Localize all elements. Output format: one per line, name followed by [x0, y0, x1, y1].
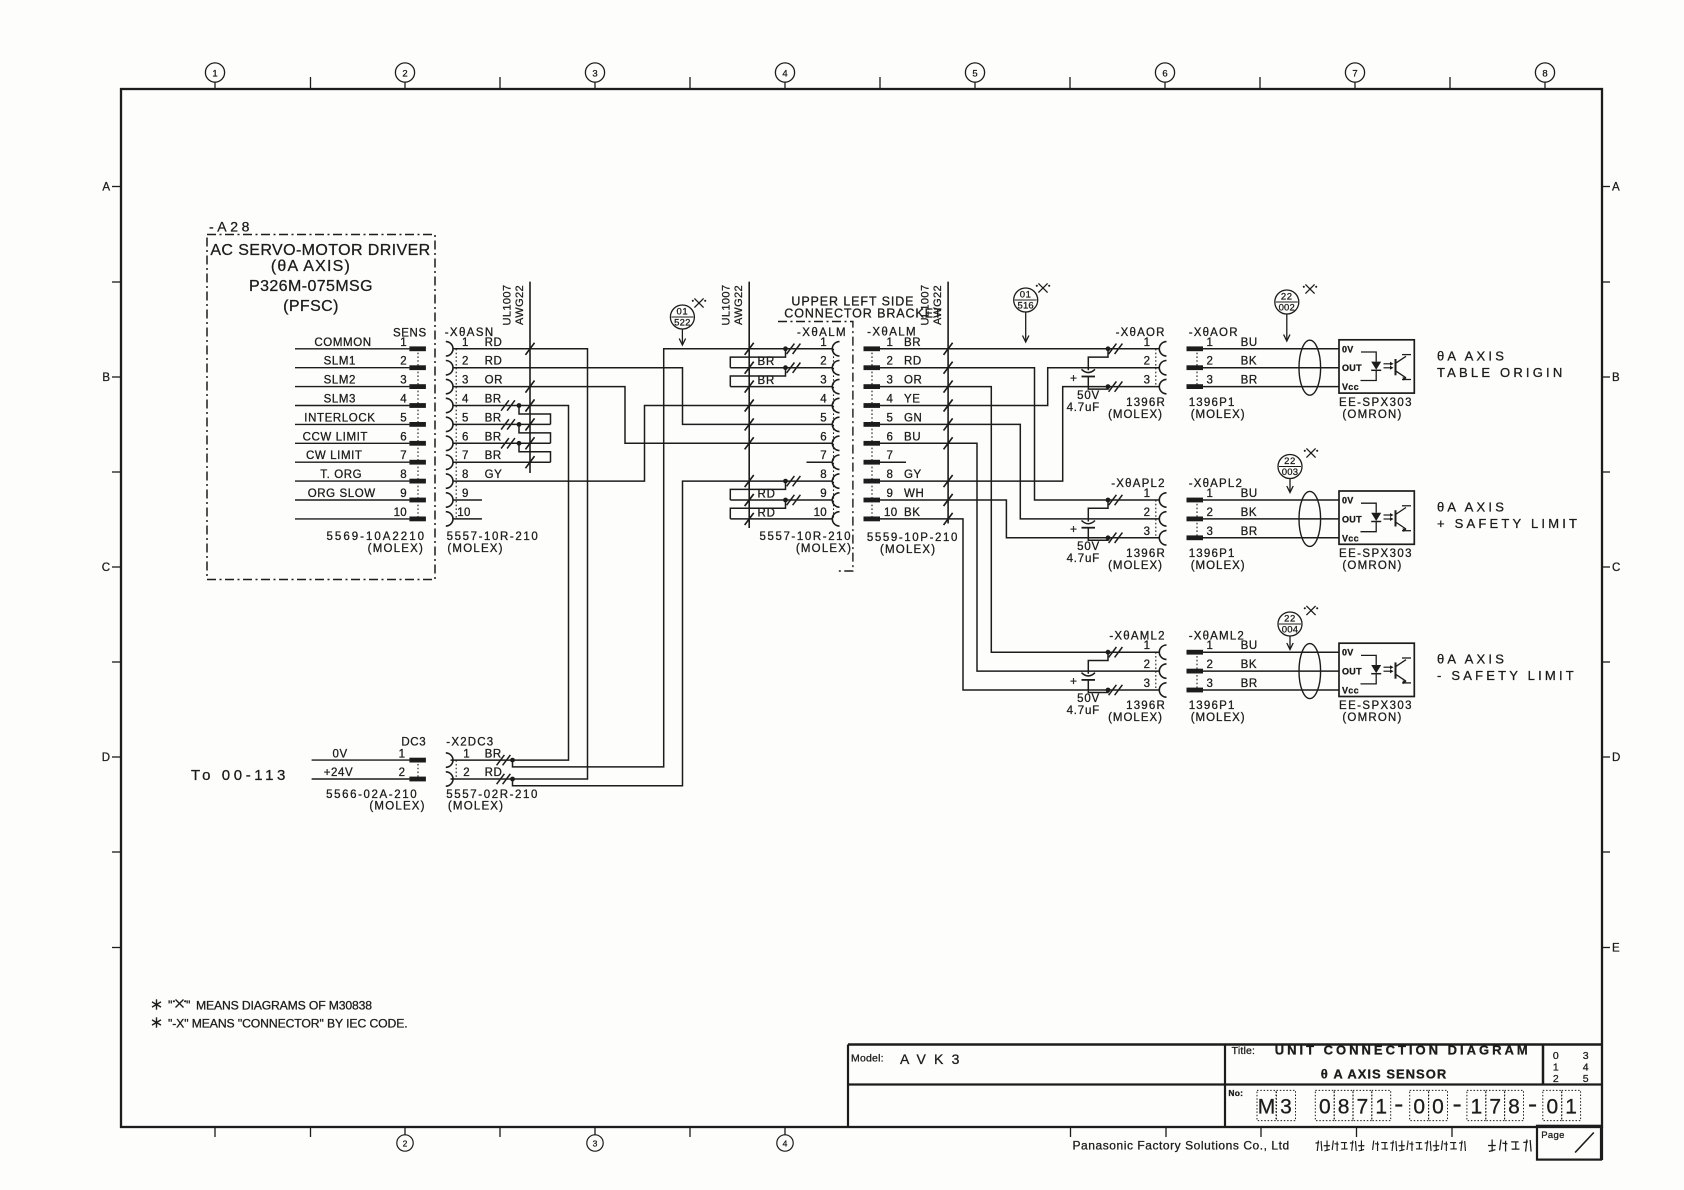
svg-text:Page: Page [1541, 1130, 1564, 1141]
svg-text:2: 2 [1144, 659, 1150, 671]
svg-text:C: C [102, 562, 110, 574]
capacitor 4.7uF 50V across AML2 0V-Vcc [1067, 652, 1108, 717]
page box [1537, 1126, 1601, 1160]
svg-text:4.7uF: 4.7uF [1067, 553, 1100, 565]
stub ALM7 right [880, 461, 906, 463]
svg-text:(MOLEX): (MOLEX) [1191, 409, 1246, 421]
label To 00-113 [191, 767, 289, 784]
svg-text:BR: BR [485, 431, 502, 443]
svg-text:BR: BR [904, 337, 921, 349]
connector -XθAOR 1396R (MOLEX) [1106, 327, 1167, 421]
svg-text:Vcc: Vcc [1342, 686, 1359, 696]
svg-text:AC SERVO-MOTOR DRIVER: AC SERVO-MOTOR DRIVER [210, 242, 430, 259]
svg-text:6: 6 [462, 431, 469, 443]
svg-text:1: 1 [1144, 337, 1150, 349]
svg-text:1: 1 [1144, 488, 1150, 500]
part labels 5557-10R-210 (MOLEX) for bracket-left connector [759, 531, 852, 555]
svg-text:1396P1: 1396P1 [1189, 700, 1236, 712]
wire ALM1 to AOR1 0V (BR) [880, 343, 1108, 355]
svg-text:2: 2 [402, 69, 407, 80]
connector -XθALM 5559-10P-210 (MOLEX) plug, bracket right side [864, 327, 959, 557]
svg-text:(OMRON): (OMRON) [1342, 560, 1402, 572]
svg-text:7: 7 [820, 450, 827, 462]
svg-text:-X2DC3: -X2DC3 [446, 737, 494, 749]
svg-text:(MOLEX): (MOLEX) [369, 800, 425, 812]
svg-text:(MOLEX): (MOLEX) [447, 543, 503, 555]
svg-text:5: 5 [400, 412, 407, 424]
title block [848, 1045, 1602, 1161]
svg-text:5559-10P-210: 5559-10P-210 [867, 532, 959, 544]
svg-text:A: A [1612, 182, 1620, 194]
svg-text:01: 01 [1020, 290, 1032, 301]
function label + SAFETY LIMIT [1437, 500, 1580, 532]
svg-text:WH: WH [904, 488, 924, 500]
svg-text:Model:: Model: [851, 1053, 884, 1065]
svg-text:GY: GY [485, 469, 503, 481]
svg-text:D: D [102, 752, 110, 764]
svg-text:3: 3 [1207, 526, 1214, 538]
diagram reference 22/002 with kome mark and arrow [1275, 284, 1317, 341]
svg-text:2: 2 [462, 356, 469, 368]
svg-text:5569-10A2210: 5569-10A2210 [327, 531, 426, 543]
svg-text:+: + [1070, 522, 1077, 536]
svg-text:5557-02R-210: 5557-02R-210 [446, 789, 539, 801]
svg-text:BR: BR [1241, 526, 1258, 538]
connector SENS 5569-10A2210 (MOLEX) header pins [295, 328, 427, 556]
svg-text:": " [186, 999, 190, 1013]
svg-text:3: 3 [1207, 375, 1214, 387]
jumper chain ALM1-ALM2-ALM3 (BR) with wire labels [730, 349, 832, 393]
svg-text:1: 1 [887, 337, 894, 349]
svg-text:3: 3 [1207, 678, 1214, 690]
svg-text:(MOLEX): (MOLEX) [880, 544, 936, 556]
svg-text:10: 10 [457, 507, 470, 519]
svg-text:(MOLEX): (MOLEX) [1108, 712, 1163, 724]
svg-text:(OMRON): (OMRON) [1342, 409, 1402, 421]
svg-text:COMMON: COMMON [314, 337, 371, 349]
svg-text:C: C [1612, 562, 1620, 574]
svg-text:4: 4 [887, 394, 894, 406]
footnote: kome mark means diagrams of M30838 [152, 999, 372, 1013]
svg-text:1396R: 1396R [1126, 397, 1166, 409]
svg-text:INTERLOCK: INTERLOCK [304, 412, 375, 424]
svg-text:0V: 0V [1342, 344, 1354, 354]
wire ALM5 to APL2 OUT (GN) [880, 418, 1159, 519]
company name Panasonic Factory Solutions Co., Ltd. [1073, 1139, 1290, 1153]
svg-text:Vcc: Vcc [1342, 533, 1359, 543]
jumper chain ASN4-ASN5-ASN6-ASN7 (BR) [453, 406, 551, 469]
svg-text:+: + [1070, 674, 1077, 688]
svg-text:SLM2: SLM2 [324, 375, 356, 387]
photo-sensor EE-SPX303 (OMRON) APL2 [1339, 491, 1414, 572]
svg-text:8: 8 [400, 469, 407, 481]
diagram reference 01/516 with kome mark and arrow [1014, 283, 1051, 342]
connector -X2DC3 5557-02R-210 (MOLEX) [446, 737, 539, 813]
svg-text:AWG22: AWG22 [514, 285, 526, 325]
svg-text:22: 22 [1284, 614, 1296, 625]
svg-text:+24V: +24V [324, 767, 354, 779]
svg-text:CCW LIMIT: CCW LIMIT [303, 431, 368, 443]
svg-text:OUT: OUT [1342, 667, 1362, 677]
svg-text:2: 2 [400, 356, 407, 368]
svg-text:(MOLEX): (MOLEX) [448, 800, 504, 812]
bracket outline UPPER LEFT SIDE CONNECTOR BRACKET (dash-dot) [778, 295, 942, 572]
svg-text:SLM1: SLM1 [324, 356, 356, 368]
svg-text:3: 3 [820, 375, 827, 387]
svg-text:3: 3 [462, 375, 469, 387]
svg-text:BU: BU [904, 431, 921, 443]
svg-text:GN: GN [904, 412, 922, 424]
svg-text:1396P1: 1396P1 [1189, 548, 1236, 560]
cable with shield ellipse to APL2 sensor [1203, 491, 1339, 546]
connector -XθALM 5557-10R-210 (MOLEX) receptacle, bracket left side [783, 327, 847, 526]
svg-text:1: 1 [1207, 640, 1214, 652]
svg-text:1: 1 [1565, 1096, 1577, 1119]
svg-text:10: 10 [884, 507, 897, 519]
svg-text:EE-SPX303: EE-SPX303 [1339, 397, 1413, 409]
svg-text:SENS: SENS [393, 328, 427, 340]
svg-text:1: 1 [1207, 337, 1214, 349]
svg-text:AWG22: AWG22 [932, 285, 944, 325]
svg-text:1396R: 1396R [1126, 548, 1166, 560]
svg-text:7: 7 [1352, 69, 1357, 80]
svg-text:50V: 50V [1077, 541, 1100, 553]
svg-text:9: 9 [820, 488, 827, 500]
svg-text:5557-10R-210: 5557-10R-210 [447, 531, 540, 543]
wire DC3 pin1 0V to ALM1 (BR) [513, 343, 833, 767]
function label TABLE ORIGIN [1437, 348, 1565, 380]
svg-text:1: 1 [1207, 488, 1214, 500]
svg-text:(MOLEX): (MOLEX) [1191, 560, 1246, 572]
stub ASN9 [453, 499, 482, 501]
svg-text:2: 2 [1144, 356, 1150, 368]
wire DC3 pin2 +24V to ALM8 (RD) [513, 475, 833, 786]
svg-text:AVK3: AVK3 [900, 1051, 968, 1067]
svg-text:01: 01 [677, 307, 689, 318]
svg-text:4: 4 [1583, 1062, 1589, 1074]
svg-text:2: 2 [887, 356, 894, 368]
svg-text:0V: 0V [333, 748, 348, 760]
svg-text:7: 7 [887, 450, 894, 462]
svg-text:AWG22: AWG22 [733, 285, 745, 325]
svg-text:10: 10 [814, 507, 827, 519]
cable UL1007 AWG22 run 1 with crossing hatches [502, 282, 535, 473]
svg-text:-XθAML2: -XθAML2 [1189, 630, 1245, 642]
drawing number M3 0871-00-178-01 [1228, 1088, 1580, 1121]
svg-text:T. ORG: T. ORG [320, 469, 362, 481]
svg-text:5: 5 [972, 69, 977, 80]
model field: AVK3 [851, 1051, 968, 1067]
svg-text:BR: BR [1241, 375, 1258, 387]
svg-text:-XθAOR: -XθAOR [1189, 327, 1239, 339]
svg-text:To 00-113: To 00-113 [191, 767, 289, 784]
footnote: -X means connector by IEC code [152, 1017, 408, 1031]
svg-text:BK: BK [1241, 659, 1258, 671]
title field: UNIT CONNECTION DIAGRAM / theta A AXIS SENSOR [1232, 1043, 1531, 1082]
svg-text:GY: GY [904, 469, 922, 481]
wire ALM2 to APL1 0V (RD) [880, 362, 1108, 500]
svg-text:1396P1: 1396P1 [1189, 397, 1236, 409]
svg-text:(MOLEX): (MOLEX) [1108, 409, 1163, 421]
svg-text:(PFSC): (PFSC) [283, 298, 339, 315]
svg-text:5: 5 [462, 412, 469, 424]
svg-text:5: 5 [820, 412, 827, 424]
svg-text:θ A AXIS SENSOR: θ A AXIS SENSOR [1321, 1067, 1448, 1082]
svg-text:1: 1 [462, 337, 469, 349]
svg-text:P326M-075MSG: P326M-075MSG [249, 278, 373, 295]
svg-text:OUT: OUT [1342, 514, 1362, 524]
svg-text:3: 3 [1280, 1096, 1292, 1119]
svg-text:1: 1 [1375, 1096, 1387, 1119]
svg-text:UL1007: UL1007 [920, 285, 932, 326]
svg-text:5557-10R-210: 5557-10R-210 [759, 531, 852, 543]
svg-text:RD: RD [485, 337, 503, 349]
svg-text:1: 1 [399, 748, 405, 760]
svg-text:2: 2 [463, 767, 469, 779]
svg-text:1: 1 [400, 337, 407, 349]
svg-text:22: 22 [1281, 292, 1293, 303]
svg-text:2: 2 [1144, 507, 1150, 519]
svg-text:1: 1 [820, 337, 827, 349]
svg-text:516: 516 [1017, 301, 1033, 312]
svg-text:4.7uF: 4.7uF [1067, 402, 1100, 414]
svg-text:Vcc: Vcc [1342, 382, 1359, 392]
wire ASN8 T.ORG to ALM4 (GY) [453, 400, 833, 482]
svg-text:θA AXIS: θA AXIS [1437, 348, 1507, 363]
svg-text:": " [168, 999, 172, 1013]
photo-sensor EE-SPX303 (OMRON) AML2 [1339, 643, 1414, 724]
svg-text:UL1007: UL1007 [721, 285, 733, 326]
svg-text:RD: RD [485, 767, 503, 779]
svg-text:2: 2 [1207, 507, 1214, 519]
svg-text:DC3: DC3 [401, 737, 426, 749]
svg-text:0V: 0V [1342, 648, 1354, 658]
svg-text:BR: BR [758, 375, 776, 387]
svg-text:2: 2 [403, 1139, 408, 1149]
svg-text:4: 4 [783, 1139, 788, 1149]
svg-text:9: 9 [462, 488, 469, 500]
svg-text:4: 4 [820, 394, 827, 406]
svg-text:3: 3 [1583, 1050, 1589, 1062]
svg-text:4: 4 [400, 394, 407, 406]
svg-text:E: E [1612, 943, 1620, 955]
svg-text:ORG SLOW: ORG SLOW [308, 488, 376, 500]
svg-text:8: 8 [1508, 1096, 1520, 1119]
svg-text:A: A [102, 182, 110, 194]
svg-text:+: + [1070, 371, 1077, 385]
connector -XθAPL2 1396P1 (MOLEX) [1187, 478, 1258, 572]
AC servo-motor driver block -A28 (dash-dot enclosure) [207, 219, 435, 580]
svg-text:BR: BR [1241, 678, 1258, 690]
wire ASN4 SLM3 to DC3 pin1 0V (BR) [451, 400, 569, 761]
svg-text:522: 522 [674, 318, 690, 329]
svg-text:BK: BK [904, 507, 921, 519]
svg-text:5: 5 [887, 412, 894, 424]
photo-sensor EE-SPX303 (OMRON) AOR [1339, 340, 1414, 421]
svg-text:(MOLEX): (MOLEX) [1191, 712, 1246, 724]
svg-text:4: 4 [782, 69, 787, 80]
svg-text:MEANS DIAGRAMS OF M30838: MEANS DIAGRAMS OF M30838 [196, 999, 372, 1013]
wire ALM6 to AML2 OUT (BU) [880, 437, 1159, 671]
svg-text:5566-02A-210: 5566-02A-210 [326, 789, 418, 801]
svg-text:(OMRON): (OMRON) [1342, 712, 1402, 724]
svg-text:2: 2 [820, 356, 827, 368]
svg-text:3: 3 [400, 375, 407, 387]
svg-text:3: 3 [1144, 526, 1150, 538]
jumper chain ALM8-ALM9-ALM10 (RD) with wire labels [730, 481, 832, 525]
svg-text:6: 6 [887, 431, 894, 443]
connector -XθASN 5557-10R-210 (MOLEX) receptacle [445, 327, 540, 555]
svg-text:-XθAOR: -XθAOR [1116, 327, 1166, 339]
svg-text:2: 2 [1207, 659, 1214, 671]
diagram reference 22/004 with kome mark and arrow [1278, 606, 1318, 650]
svg-text:0: 0 [1546, 1096, 1558, 1119]
svg-text:6: 6 [820, 431, 827, 443]
svg-text:M: M [1258, 1096, 1276, 1119]
stub ALM7 left [807, 461, 833, 463]
svg-text:BR: BR [485, 412, 502, 424]
svg-text:B: B [1612, 372, 1620, 384]
cable with shield ellipse to AOR sensor [1203, 340, 1339, 395]
svg-text:BR: BR [758, 356, 776, 368]
connector DC3 5566-02A-210 (MOLEX) [312, 737, 427, 813]
connector -XθAML2 1396R (MOLEX) [1106, 630, 1167, 724]
svg-text:0: 0 [1413, 1096, 1425, 1119]
cable UL1007 AWG22 run 3 with crossing hatches [920, 282, 953, 525]
cable UL1007 AWG22 run 2 with crossing hatches [721, 282, 754, 528]
svg-text:-A28: -A28 [209, 219, 253, 235]
diagram reference 01/522 with kome mark and arrow [670, 298, 706, 345]
svg-text:(MOLEX): (MOLEX) [368, 543, 424, 555]
svg-text:BK: BK [1241, 507, 1258, 519]
svg-text:YE: YE [904, 394, 921, 406]
svg-text:+ SAFETY LIMIT: + SAFETY LIMIT [1437, 516, 1580, 531]
svg-text:BR: BR [485, 450, 502, 462]
svg-text:UL1007: UL1007 [502, 285, 514, 326]
svg-text:8: 8 [462, 469, 469, 481]
svg-text:0V: 0V [1342, 496, 1354, 506]
svg-text:6: 6 [1162, 69, 1167, 80]
diagram reference 22/003 with kome mark and arrow [1278, 448, 1318, 492]
svg-text:CW LIMIT: CW LIMIT [306, 450, 363, 462]
svg-text:EE-SPX303: EE-SPX303 [1339, 548, 1413, 560]
svg-text:1: 1 [1144, 640, 1150, 652]
svg-text:θA AXIS: θA AXIS [1437, 500, 1507, 515]
connector -XθAML2 1396P1 (MOLEX) [1187, 630, 1258, 724]
wire ASN1 COMMON to DC3 pin2 +24V (RD) [451, 343, 588, 779]
svg-text:004: 004 [1282, 625, 1298, 636]
svg-text:OR: OR [485, 375, 503, 387]
svg-text:2: 2 [1207, 356, 1214, 368]
svg-text:(θA AXIS): (θA AXIS) [271, 258, 351, 275]
svg-text:3: 3 [1144, 375, 1150, 387]
svg-text:7: 7 [400, 450, 407, 462]
svg-text:7: 7 [1489, 1096, 1501, 1119]
svg-text:BU: BU [1241, 640, 1258, 652]
svg-text:TABLE ORIGIN: TABLE ORIGIN [1437, 365, 1565, 380]
svg-text:SLM3: SLM3 [324, 394, 356, 406]
svg-text:50V: 50V [1077, 390, 1100, 402]
svg-text:EE-SPX303: EE-SPX303 [1339, 700, 1413, 712]
svg-text:- SAFETY LIMIT: - SAFETY LIMIT [1437, 668, 1577, 683]
wire ALM4 to AOR2 OUT (YE) [880, 368, 1159, 412]
wire ALM3 to AML1 0V (OR) [880, 381, 1108, 653]
wire ALM8 to AOR3 Vcc (GY) [880, 387, 1108, 488]
svg-text:8: 8 [1542, 69, 1547, 80]
svg-text:3: 3 [593, 1139, 598, 1149]
connector -XθAPL2 1396R (MOLEX) [1106, 478, 1167, 572]
capacitor 4.7uF 50V across AOR 0V-Vcc [1067, 349, 1108, 414]
wire ALM10 to AML3 Vcc (BK) [880, 513, 1108, 690]
svg-text:4.7uF: 4.7uF [1067, 705, 1100, 717]
svg-text:-XθAML2: -XθAML2 [1109, 630, 1165, 642]
svg-text:7: 7 [1357, 1096, 1369, 1119]
svg-text:(MOLEX): (MOLEX) [1108, 560, 1163, 572]
svg-text:1396R: 1396R [1126, 700, 1166, 712]
svg-text:9: 9 [400, 488, 407, 500]
svg-text:0: 0 [1432, 1096, 1444, 1119]
svg-text:8: 8 [887, 469, 894, 481]
svg-text:BU: BU [1241, 488, 1258, 500]
svg-text:8: 8 [1338, 1096, 1350, 1119]
svg-text:3: 3 [1144, 678, 1150, 690]
svg-text:4: 4 [462, 394, 469, 406]
svg-text:BU: BU [1241, 337, 1258, 349]
svg-text:2: 2 [399, 767, 405, 779]
connector -XθAOR 1396P1 (MOLEX) [1187, 327, 1258, 421]
svg-text:RD: RD [485, 356, 503, 368]
svg-text:003: 003 [1282, 467, 1298, 478]
svg-text:0: 0 [1319, 1096, 1331, 1119]
svg-text:-XθAPL2: -XθAPL2 [1111, 478, 1165, 490]
capacitor 4.7uF 50V across APL2 0V-Vcc [1067, 500, 1108, 565]
svg-text:RD: RD [758, 507, 776, 519]
svg-text:BR: BR [485, 394, 502, 406]
svg-text:5: 5 [1583, 1073, 1589, 1085]
svg-text:UNIT CONNECTION DIAGRAM: UNIT CONNECTION DIAGRAM [1275, 1043, 1531, 1058]
svg-text:OR: OR [904, 375, 922, 387]
svg-text:10: 10 [394, 507, 407, 519]
svg-text:Title:: Title: [1232, 1045, 1256, 1057]
svg-text:B: B [102, 372, 110, 384]
svg-text:7: 7 [462, 450, 469, 462]
svg-text:2: 2 [1553, 1073, 1559, 1085]
svg-text:RD: RD [904, 356, 922, 368]
svg-text:002: 002 [1279, 303, 1295, 314]
svg-text:BK: BK [1241, 356, 1258, 368]
svg-text:D: D [1612, 752, 1620, 764]
svg-text:6: 6 [400, 431, 407, 443]
stub ASN10 [453, 518, 482, 520]
svg-text:1: 1 [1471, 1096, 1483, 1119]
svg-text:No:: No: [1228, 1088, 1243, 1098]
svg-text:3: 3 [887, 375, 894, 387]
wire ALM9 to APL3 Vcc (WH) [880, 494, 1108, 538]
svg-text:1: 1 [463, 748, 469, 760]
svg-text:22: 22 [1284, 456, 1296, 467]
svg-text:0: 0 [1553, 1050, 1559, 1062]
svg-text:θA AXIS: θA AXIS [1437, 652, 1507, 667]
svg-text:8: 8 [820, 469, 827, 481]
wire ASN3 SLM2 to ALM6 (OR) [453, 381, 833, 450]
svg-text:-XθAPL2: -XθAPL2 [1189, 478, 1243, 490]
svg-text:"-X" MEANS "CONNECTOR" BY IEC: "-X" MEANS "CONNECTOR" BY IEC CODE. [168, 1017, 408, 1031]
svg-text:OUT: OUT [1342, 363, 1362, 373]
cable with shield ellipse to AML2 sensor [1203, 644, 1339, 699]
svg-text:BR: BR [485, 748, 502, 760]
svg-text:1: 1 [212, 69, 217, 80]
svg-text:Panasonic Factory Solutions Co: Panasonic Factory Solutions Co., Ltd [1073, 1139, 1290, 1153]
